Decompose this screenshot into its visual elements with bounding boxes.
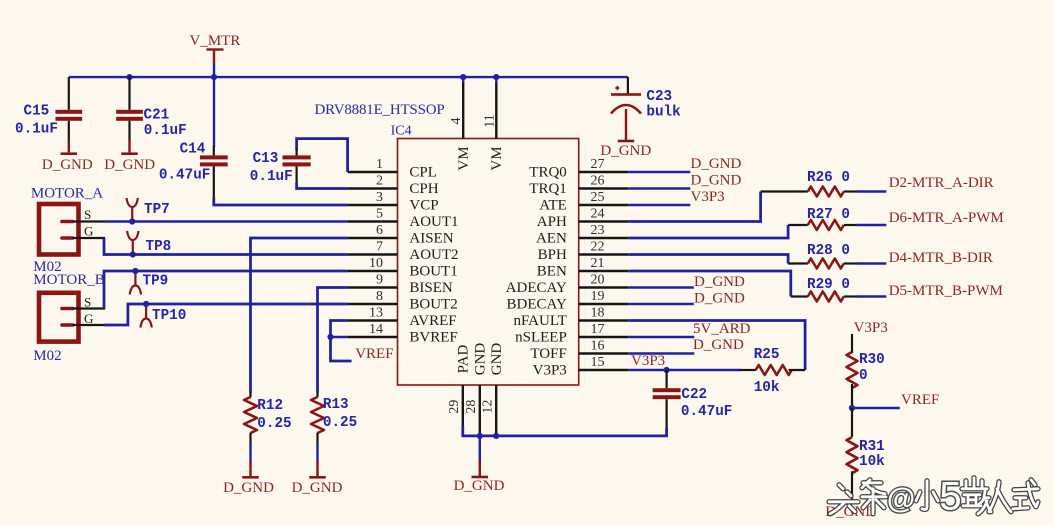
svg-text:TP8: TP8: [146, 239, 172, 255]
svg-text:MOTOR_B: MOTOR_B: [33, 272, 104, 288]
svg-text:13: 13: [369, 305, 383, 320]
connector MOTOR_A M02: [31, 186, 103, 275]
svg-text:0.1uF: 0.1uF: [144, 123, 187, 139]
svg-text:TRQ1: TRQ1: [529, 181, 567, 197]
svg-text:11: 11: [482, 114, 497, 127]
junction VREF: [849, 405, 855, 411]
svg-text:TOFF: TOFF: [530, 346, 566, 362]
svg-text:R25: R25: [754, 347, 780, 363]
ground D_GND C23: [600, 140, 651, 160]
wire TOFF to D_GND: [628, 352, 694, 354]
wire C13 bottom to pin2 CPH: [297, 183, 348, 189]
svg-text:27: 27: [591, 157, 605, 172]
wire C13 top to pin1 CPL: [297, 139, 348, 172]
wire C22 to GND bus: [463, 425, 667, 436]
svg-text:6: 6: [376, 223, 383, 238]
svg-text:16: 16: [591, 338, 605, 353]
ground D_GND R13: [292, 476, 343, 496]
net label VREF right: [901, 392, 939, 408]
svg-text:BVREF: BVREF: [409, 329, 457, 345]
net label 5V_ARD: [693, 321, 751, 337]
svg-text:TP7: TP7: [144, 202, 170, 218]
net label VREF left: [355, 346, 393, 362]
svg-text:R13: R13: [323, 397, 349, 413]
wire GND bus drop: [479, 436, 481, 462]
svg-text:D6-MTR_A-PWM: D6-MTR_A-PWM: [889, 210, 1004, 226]
junction V_MTR-bus: [211, 74, 217, 80]
IC IC4 DRV8881E_HTSSOP with pins: [348, 77, 629, 433]
svg-text:0.25: 0.25: [323, 415, 357, 431]
svg-text:AOUT2: AOUT2: [409, 247, 458, 263]
svg-text:C14: C14: [180, 142, 206, 158]
svg-text:M02: M02: [33, 348, 61, 364]
wire V3P3 pin15: [628, 369, 741, 371]
svg-text:VM: VM: [489, 146, 505, 170]
capacitor C22: [653, 370, 733, 429]
ground D_GND C15: [42, 152, 93, 172]
svg-text:2: 2: [376, 173, 383, 188]
svg-text:PAD: PAD: [456, 345, 472, 374]
svg-text:D2-MTR_A-DIR: D2-MTR_A-DIR: [889, 175, 994, 191]
wire R28 to D4-MTR_B-DIR: [857, 262, 887, 264]
svg-text:C13: C13: [253, 151, 279, 167]
wire C14 to pin3 VCP: [214, 197, 348, 205]
svg-text:D_GND: D_GND: [454, 478, 505, 494]
wire AISEN to R12: [251, 238, 348, 393]
svg-text:nFAULT: nFAULT: [513, 313, 566, 329]
svg-text:GND: GND: [473, 343, 489, 376]
svg-text:24: 24: [591, 206, 605, 221]
svg-text:DRV8881E_HTSSOP: DRV8881E_HTSSOP: [315, 102, 445, 118]
svg-text:D_GND: D_GND: [694, 274, 745, 290]
capacitor C13: [250, 149, 311, 185]
power port V_MTR: [190, 33, 241, 77]
svg-text:R31: R31: [859, 439, 885, 455]
net label D_GND TOFF: [693, 337, 744, 353]
net label V3P3 ATE: [691, 189, 725, 205]
svg-text:3: 3: [376, 190, 383, 205]
svg-text:C23: C23: [646, 89, 672, 105]
wire MOTOR_B G lead: [73, 324, 106, 326]
resistor R26 0: [807, 170, 857, 197]
svg-text:10k: 10k: [754, 380, 780, 396]
resistor R27 0: [807, 207, 857, 230]
svg-text:CPL: CPL: [409, 164, 437, 180]
wire MOTOR_B G to BOUT2: [104, 304, 348, 325]
svg-text:D_GND: D_GND: [691, 173, 742, 189]
resistor R13 0.25: [311, 392, 357, 477]
svg-text:ATE: ATE: [539, 197, 567, 213]
net label D6-MTR_A-PWM: [889, 210, 1004, 226]
svg-text:VM: VM: [456, 146, 472, 170]
wire bus to C23: [627, 77, 629, 94]
svg-text:D5-MTR_B-PWM: D5-MTR_B-PWM: [889, 283, 1003, 299]
svg-text:CPH: CPH: [409, 181, 438, 197]
ground D_GND R12: [223, 476, 274, 496]
wire MOTOR_A S lead: [73, 220, 106, 222]
watermark: [829, 474, 1038, 518]
ground D_GND C21: [104, 152, 155, 172]
svg-text:5V_ARD: 5V_ARD: [693, 321, 751, 337]
svg-text:TP10: TP10: [152, 308, 186, 324]
junction VM pin4: [460, 74, 466, 80]
svg-text:V3P3: V3P3: [631, 353, 665, 369]
svg-text:GND: GND: [489, 343, 505, 376]
net label D_GND TRQ1: [691, 173, 742, 189]
svg-text:D_GND: D_GND: [292, 480, 343, 496]
svg-text:C22: C22: [681, 387, 707, 403]
svg-text:R12: R12: [257, 398, 283, 414]
svg-text:10: 10: [369, 256, 383, 271]
wire BISEN to R13: [318, 288, 348, 393]
net label D_GND ADECAY: [694, 274, 745, 290]
svg-text:29: 29: [447, 400, 462, 414]
test point TP10: [140, 301, 186, 328]
wire VREF: [852, 407, 900, 409]
svg-text:10k: 10k: [859, 454, 885, 470]
resistor R12 0.25: [244, 392, 292, 477]
svg-text:21: 21: [591, 256, 605, 271]
wire ADECAY to D_GND: [628, 286, 694, 288]
test point TP9: [130, 268, 169, 295]
svg-text:BEN: BEN: [537, 263, 567, 279]
resistor R28 0: [807, 243, 857, 269]
junction GND pin28: [477, 433, 483, 439]
label DRV8881E_HTSSOP: [315, 102, 445, 118]
svg-text:D_GND: D_GND: [104, 157, 155, 173]
svg-text:V3P3: V3P3: [533, 362, 567, 378]
svg-text:19: 19: [591, 289, 605, 304]
wire nFAULT to R25: [628, 321, 805, 371]
svg-text:25: 25: [591, 190, 605, 205]
svg-text:12: 12: [480, 400, 495, 414]
svg-text:MOTOR_A: MOTOR_A: [31, 186, 103, 202]
wire R27 to D6-MTR_A-PWM: [857, 224, 887, 226]
junction BVREF: [327, 334, 333, 340]
svg-text:APH: APH: [537, 214, 567, 230]
label IC4: [391, 123, 412, 138]
svg-text:TP9: TP9: [143, 273, 169, 289]
wire R29 to D5-MTR_B-PWM: [857, 295, 887, 297]
wire MOTOR_B S lead: [73, 307, 106, 309]
svg-text:7: 7: [376, 239, 383, 254]
svg-text:5: 5: [939, 474, 961, 518]
wire V_MTR to C14: [213, 77, 215, 147]
svg-text:D_GND: D_GND: [694, 291, 745, 307]
net label D2-MTR_A-DIR: [889, 175, 994, 191]
svg-text:14: 14: [369, 322, 383, 337]
svg-text:5: 5: [376, 206, 383, 221]
capacitor C21: [116, 77, 187, 152]
wire BPH to R28: [628, 255, 808, 264]
capacitor C15: [15, 77, 82, 152]
ground D_GND bottom: [454, 476, 505, 494]
svg-text:V3P3: V3P3: [854, 320, 888, 336]
wire top VM bus: [69, 76, 628, 78]
svg-text:TRQ0: TRQ0: [529, 164, 567, 180]
svg-text:D_GND: D_GND: [223, 480, 274, 496]
svg-text:BOUT1: BOUT1: [409, 263, 457, 279]
svg-text:V_MTR: V_MTR: [190, 33, 241, 49]
svg-text:R30: R30: [859, 352, 885, 368]
ground D_GND R31: [825, 501, 876, 520]
junction GND pin12: [493, 433, 499, 439]
wire BEN to R29: [628, 271, 808, 297]
svg-text:BOUT2: BOUT2: [409, 296, 457, 312]
net label V3P3 pin15: [631, 353, 665, 369]
svg-text:D_GND: D_GND: [693, 337, 744, 353]
svg-text:VREF: VREF: [355, 346, 393, 362]
wire nSLEEP to 5V_ARD: [628, 336, 694, 338]
wire APH to R26: [628, 192, 808, 222]
wire ATE to V3P3: [628, 204, 690, 206]
svg-text:IC4: IC4: [391, 123, 412, 138]
svg-text:23: 23: [591, 223, 605, 238]
svg-text:BDECAY: BDECAY: [507, 296, 567, 312]
svg-text:D_GND: D_GND: [42, 157, 93, 173]
junction VM pin11: [493, 74, 499, 80]
net label D_GND TRQ0: [691, 156, 742, 172]
svg-text:S: S: [84, 207, 91, 222]
test point TP7: [127, 198, 170, 225]
svg-text:8: 8: [376, 289, 383, 304]
svg-text:VCP: VCP: [409, 197, 438, 213]
wire GND stem: [479, 461, 481, 476]
svg-text:20: 20: [591, 272, 605, 287]
junction C21-bus: [126, 74, 132, 80]
wire AVREF-BVREF to VREF: [331, 321, 352, 362]
svg-text:1: 1: [376, 157, 383, 172]
svg-text:0.1uF: 0.1uF: [15, 122, 58, 138]
svg-text:AOUT1: AOUT1: [409, 214, 458, 230]
net label D4-MTR_B-DIR: [889, 250, 993, 266]
capacitor C23 polarized: [611, 86, 681, 140]
svg-text:17: 17: [591, 322, 605, 337]
svg-text:26: 26: [591, 173, 605, 188]
wire AEN to R27: [628, 225, 808, 238]
wire MOTOR_A S to AOUT1: [105, 220, 348, 222]
svg-text:28: 28: [464, 400, 479, 414]
resistor R25 10k: [740, 347, 805, 396]
svg-text:C21: C21: [144, 108, 170, 124]
capacitor C14: [159, 142, 228, 199]
svg-text:BPH: BPH: [538, 247, 567, 263]
svg-text:9: 9: [376, 272, 383, 287]
wire TRQ0 to D_GND: [628, 171, 690, 173]
svg-text:0.1uF: 0.1uF: [250, 169, 293, 185]
svg-text:BISEN: BISEN: [409, 280, 453, 296]
svg-text:G: G: [84, 224, 93, 239]
wire BDECAY to D_GND: [628, 303, 694, 305]
wire MOTOR_A G to AOUT2: [104, 238, 348, 255]
svg-text:0.47uF: 0.47uF: [681, 404, 732, 420]
resistor R31 10k: [847, 408, 886, 501]
svg-text:4: 4: [449, 118, 464, 125]
wire MOTOR_B S to BOUT1: [104, 271, 348, 309]
resistor R30 0: [847, 352, 885, 408]
svg-text:R29 0: R29 0: [807, 277, 850, 293]
svg-text:VREF: VREF: [901, 392, 939, 408]
power port V3P3 right: [852, 320, 888, 353]
junction V3P3-C22: [664, 367, 670, 373]
svg-text:C15: C15: [24, 104, 50, 120]
svg-text:R27 0: R27 0: [807, 207, 850, 223]
svg-text:R26 0: R26 0: [807, 170, 850, 186]
svg-text:15: 15: [591, 355, 605, 370]
svg-text:@: @: [887, 483, 915, 515]
svg-text:V3P3: V3P3: [691, 189, 725, 205]
test point TP8: [127, 231, 171, 258]
svg-text:AEN: AEN: [536, 230, 567, 246]
svg-text:ADECAY: ADECAY: [506, 280, 567, 296]
svg-text:0.47uF: 0.47uF: [159, 168, 210, 184]
svg-text:AVREF: AVREF: [409, 313, 456, 329]
svg-text:D_GND: D_GND: [691, 156, 742, 172]
svg-text:0: 0: [859, 368, 868, 384]
resistor R29 0: [807, 277, 857, 302]
svg-text:AISEN: AISEN: [409, 230, 453, 246]
svg-text:0.25: 0.25: [257, 416, 291, 432]
net label D5-MTR_B-PWM: [889, 283, 1003, 299]
svg-text:22: 22: [591, 239, 605, 254]
wire TRQ1 to D_GND: [628, 187, 690, 189]
svg-text:R28 0: R28 0: [807, 243, 850, 259]
svg-text:D4-MTR_B-DIR: D4-MTR_B-DIR: [889, 250, 993, 266]
svg-text:nSLEEP: nSLEEP: [515, 329, 567, 345]
svg-text:18: 18: [591, 305, 605, 320]
svg-text:D_GND: D_GND: [600, 143, 651, 159]
wire MOTOR_A G lead: [73, 237, 106, 239]
connector MOTOR_B M02: [33, 272, 104, 364]
svg-text:S: S: [84, 295, 91, 310]
wire R26 to D2-MTR_A-DIR: [857, 190, 887, 192]
net label D_GND BDECAY: [694, 291, 745, 307]
svg-text:bulk: bulk: [646, 104, 681, 120]
